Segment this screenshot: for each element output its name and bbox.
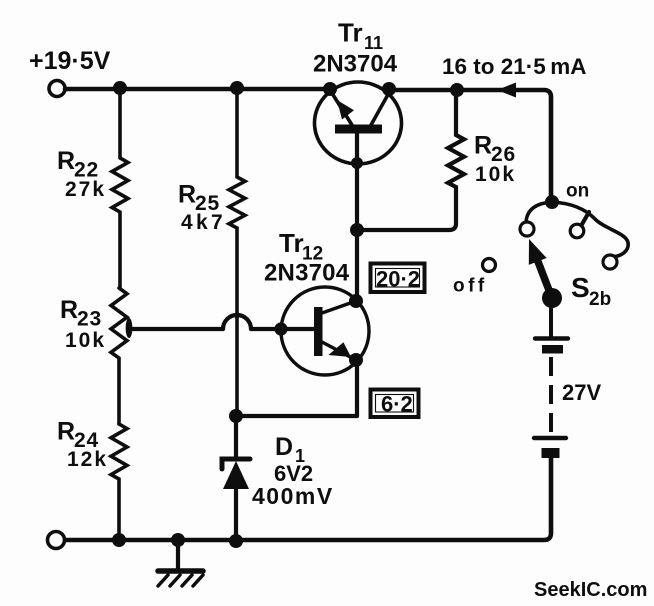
battery cell2 long plate [534,436,566,440]
resistor R23 [111,288,127,424]
svg-text:2N3704: 2N3704 [264,260,350,287]
svg-text:20·2: 20·2 [376,267,420,292]
svg-text:16 to 21·5 mA: 16 to 21·5 mA [442,54,587,79]
switch S2b feed node [545,195,559,209]
svg-text:10k: 10k [65,329,106,352]
switch pivot [542,288,562,308]
battery cell1 long plate [535,336,568,340]
switch contact middle [570,224,584,238]
svg-text:SeekIC.com: SeekIC.com [534,579,647,601]
svg-text:off: off [453,276,488,297]
zener diode D1 wire top [234,417,238,459]
label R24 [57,418,108,472]
svg-text:R: R [57,418,75,446]
wire battery dashed [549,357,553,433]
label Tr11 [338,18,383,54]
current arrow on rail [497,83,516,98]
resistor R22 [112,88,128,288]
svg-text:400mV: 400mV [252,483,334,509]
battery cell2 short plate [542,448,560,458]
off contact circle [483,259,496,272]
svg-text:6·2: 6·2 [381,392,413,417]
label Tr12 [279,228,323,265]
svg-text:10k: 10k [475,163,516,186]
resistor R25 [229,88,245,417]
switch blade arrowhead [529,239,547,265]
label R23 [60,296,106,352]
svg-text:R: R [57,147,75,175]
svg-text:23: 23 [77,308,102,331]
zener diode D1 wire bottom [234,489,238,541]
node bottom rail ground [171,533,185,547]
zener diode D1 triangle [223,461,249,489]
wire pivot to battery [549,298,553,338]
terminal +19.5V [49,81,65,97]
ground hatch 1 [158,575,168,586]
label D1 [275,433,305,466]
svg-text:S: S [571,272,590,303]
node Tr12 base edge [274,322,287,335]
ground bar [158,568,203,574]
wire hop over R25 line [223,315,251,329]
svg-text:27k: 27k [65,178,106,201]
svg-text:+19·5V: +19·5V [29,47,111,75]
resistor R26 [358,90,464,230]
transistor Tr11 collector lead [371,91,390,125]
transistor Tr12 emitter arrow [328,342,351,357]
transistor Tr12 emitter lead [322,342,356,360]
svg-text:2b: 2b [589,289,611,310]
node junction top rail R22 [113,81,127,95]
node Tr11 emitter rail [323,82,337,96]
wire emitter to D1 [236,414,357,418]
svg-text:Tr: Tr [338,18,363,48]
transistor Tr12 circle [281,287,369,375]
label R26 [474,132,516,187]
svg-text:on: on [566,181,589,202]
svg-text:27V: 27V [562,380,601,405]
transistor Tr12 collector lead [322,301,356,313]
node bottom rail D1 [229,534,243,548]
wire Tr11 base down [355,131,359,301]
svg-text:4k7: 4k7 [181,211,226,234]
node junction top rail R25 [230,81,244,95]
node base R26 junction [350,223,364,237]
label R22 [57,147,106,201]
potentiometer wiper R23 [126,318,133,338]
svg-text:Tr: Tr [279,228,304,258]
switch blade [537,259,552,298]
transistor Tr11 emitter lead [330,90,352,125]
battery cell1 short plate [542,345,563,354]
node bottom rail R24 [112,533,126,547]
label R25 [178,181,226,235]
transistor Tr11 emitter arrow [337,100,354,120]
node Tr11 collector rail [382,82,396,96]
resistor R24 [111,424,127,540]
node junction R26 top [450,83,464,97]
ground stub [176,540,180,569]
ground hatch 3 [182,575,192,586]
transistor Tr11 base bar [335,125,382,134]
wire battery to bottom rail [65,456,551,540]
transistor Tr11 circle [315,82,402,164]
svg-text:2N3704: 2N3704 [313,51,398,78]
wire Tr12 emitter down [355,360,359,416]
wire wiper to hop [129,327,223,331]
node Tr11 base circle edge [351,157,363,169]
switch arc right [552,202,628,257]
label S2b [571,272,611,310]
svg-text:R: R [60,296,78,324]
terminal bottom left [48,532,65,549]
switch contact right [603,255,617,269]
svg-text:R: R [178,181,196,209]
ground hatch 4 [193,575,203,586]
svg-text:R: R [474,132,492,160]
node Tr12 emitter junction [349,353,363,367]
node D1 top junction [229,409,243,423]
switch contact middle stub [581,212,589,226]
zener diode D1 cathode bar [222,459,250,469]
switch arc left [526,202,552,222]
switch contact left [520,222,534,236]
ground hatch 2 [170,575,180,586]
wire top rail right [388,90,551,202]
transistor Tr12 base bar [314,307,323,356]
svg-text:D: D [275,433,293,461]
wire hop to Tr12 base [251,327,314,331]
wire top rail left [65,87,331,92]
measurement box 20.2 [371,264,425,293]
svg-text:12k: 12k [67,448,108,471]
node Tr12 collector junction [349,294,363,308]
measurement box 6.2 [371,390,419,418]
